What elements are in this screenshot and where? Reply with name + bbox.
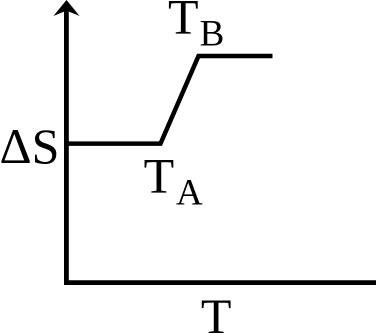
svg-text:A: A [176,172,203,213]
svg-text:T: T [168,0,199,45]
y-axis arrowhead [53,0,79,16]
svg-text:T: T [144,147,175,203]
svg-text:ΔS: ΔS [0,118,59,174]
y-axis (vertical line) [64,8,69,285]
curve: lower plateau, rise between T_A and T_B, upper plateau [66,56,272,144]
x-axis (horizontal line) [64,280,376,285]
svg-text:B: B [200,13,225,54]
svg-text:T: T [201,288,232,333]
